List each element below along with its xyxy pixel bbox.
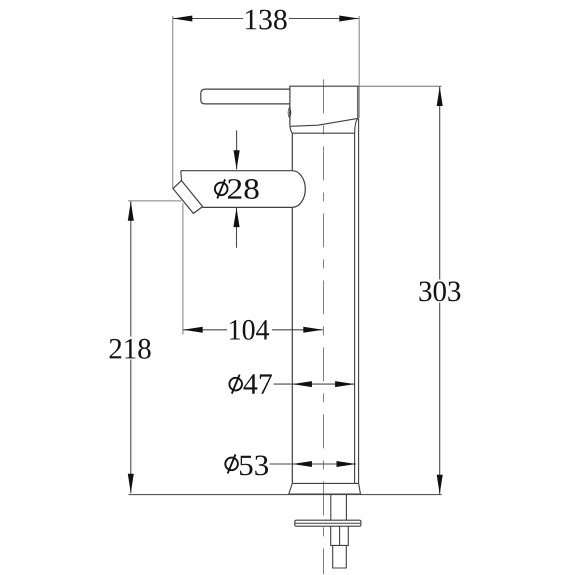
label 138: [246, 10, 287, 30]
housing bottom slant: [290, 118, 358, 126]
label d53: [225, 454, 238, 473]
dim d28 arrowhead down: [234, 150, 240, 169]
dimension line d28 upper shaft: [236, 130, 238, 169]
cartridge housing: [290, 86, 358, 126]
body top edge: [292, 132, 355, 134]
washer: [295, 520, 361, 526]
extension line bottom shared: [129, 494, 442, 496]
body left edge lower: [291, 207, 293, 483]
extension line 104 left: [182, 203, 184, 334]
body right outer edge: [358, 118, 360, 483]
handle lever: [201, 89, 290, 104]
label d47: [229, 375, 242, 394]
extension line 303 top: [358, 85, 442, 87]
spout capsule: [181, 171, 305, 208]
dimension line 104: [183, 329, 323, 331]
aerator tip: [173, 181, 203, 214]
dimension line d53: [270, 463, 357, 465]
dimension line 138: [173, 18, 359, 20]
arrowheads: [128, 16, 443, 495]
body left edge upper: [291, 133, 293, 171]
dim 303 arrowhead up: [437, 87, 443, 107]
dimension line d28 lower shaft: [236, 208, 238, 248]
spout tip edge: [180, 171, 183, 181]
dim 303 arrowhead down: [437, 475, 443, 495]
center line: [323, 79, 325, 574]
label d28: [215, 179, 228, 198]
hose tube: [333, 545, 347, 568]
dim 218 arrowhead up: [128, 201, 134, 221]
dim d53 arrowhead right: [337, 461, 357, 467]
label 303: [419, 281, 460, 301]
dimension line d47: [274, 383, 355, 385]
dimension line 218: [130, 201, 132, 493]
label 104: [230, 320, 269, 340]
label 218: [110, 339, 151, 359]
dim 138 arrowhead right: [339, 16, 359, 22]
dimension line 303: [439, 87, 441, 495]
dim d53 arrowhead left: [292, 461, 312, 467]
dim 138 arrowhead left: [173, 16, 193, 22]
nut: [331, 526, 349, 545]
dim d47 arrowhead right: [335, 381, 355, 387]
dim 104 arrowhead left: [183, 327, 203, 333]
neck left: [290, 126, 292, 133]
neck right: [355, 118, 358, 133]
extension line 218 top: [128, 200, 181, 202]
text masks: [107, 8, 463, 360]
shank: [331, 495, 347, 521]
extension line 138 left: [172, 16, 174, 189]
base: [289, 483, 361, 494]
dim d47 arrowhead left: [292, 381, 312, 387]
dim 104 arrowhead right: [303, 327, 323, 333]
extension line 138 right: [358, 16, 360, 118]
body right inner edge: [354, 133, 356, 483]
dim 218 arrowhead down: [128, 474, 134, 494]
dim d28 arrowhead up: [233, 208, 239, 227]
handle hub screw detail: [288, 107, 291, 118]
